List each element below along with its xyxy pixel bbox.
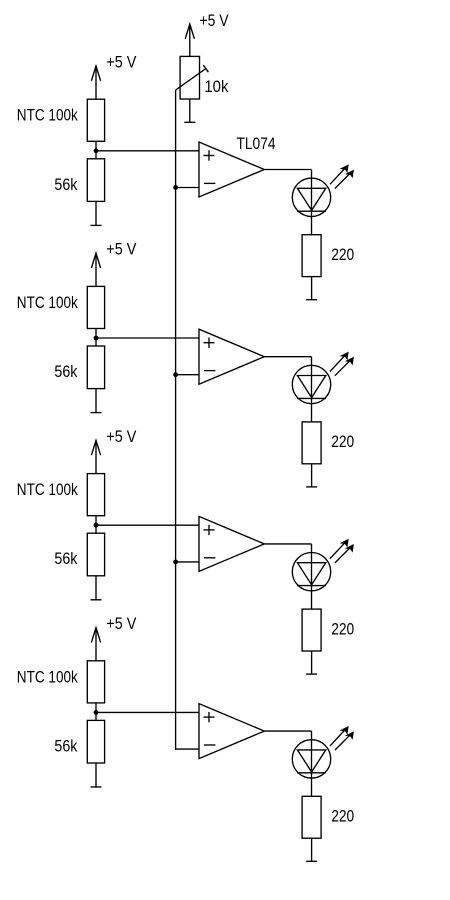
- svg-text:10k: 10k: [204, 78, 229, 96]
- svg-text:TL074: TL074: [237, 135, 276, 153]
- svg-text:+5 V: +5 V: [200, 12, 229, 30]
